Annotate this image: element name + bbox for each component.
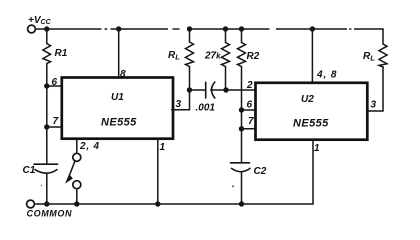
scan speck [41,185,42,186]
terminal COMMON [27,200,35,208]
wire U1 pin 3 to RL junction [172,90,190,110]
wire R2 bottom / U2 pins 2,6,7 column to C2 [241,67,243,163]
terminal +Vcc [28,25,36,33]
wire left column (R1 leads / pins 6,7 / C1) [46,29,48,204]
capacitor .001 curved plate [212,82,215,98]
wire coupling cap line [190,89,256,91]
node Vcc/R1 junction [44,26,49,31]
switch S1 upper contact [73,153,81,161]
capacitor .001 left plate [205,82,207,98]
node U2 4,8 top junction [310,26,315,31]
wire U1 pin 8 [118,29,120,78]
node U2 pin6 junction [239,107,244,112]
resistor RL right [379,29,387,67]
node R2 top junction [239,26,244,31]
capacitor C1 top plate [34,163,58,165]
svg-text:8: 8 [120,69,126,80]
capacitor C1 curved plate [35,170,57,174]
svg-text:R2: R2 [247,51,260,62]
scan speck [232,185,234,187]
svg-text:+VCC: +VCC [28,15,52,26]
capacitor C2 top plate [231,162,250,164]
capacitor C2 curved plate [232,168,251,171]
svg-text:U1: U1 [111,92,124,103]
wire top rail scan gaps [102,28,355,31]
svg-text:1: 1 [314,143,320,154]
svg-text:7: 7 [53,116,59,127]
resistor R2 zigzag [238,43,246,67]
resistor R2 leads [241,29,243,43]
wire U2 pin 3 to RL right [367,67,383,111]
switch S1 blade [69,161,75,177]
node 27k top junction [223,26,228,31]
svg-text:6: 6 [247,100,253,111]
svg-text:RL: RL [168,50,180,62]
svg-text:C2: C2 [254,166,267,177]
svg-text:RL: RL [363,51,375,63]
node switch bottom junction [74,201,79,206]
IC U2 NE555 box [256,83,368,140]
wire U2 pin 6 stub [242,109,256,111]
svg-text:3: 3 [176,99,182,110]
wire U2 pin 7 stub [242,128,256,130]
wire U1 pin 2,4 stub to switch [76,139,78,154]
svg-text:COMMON: COMMON [27,209,73,219]
wire U1 pin 7 stub [47,126,62,128]
svg-text:2: 2 [246,80,253,91]
svg-text:27k: 27k [204,51,221,62]
node pin3/RL junction [187,87,192,92]
IC U1 NE555 box [62,78,173,139]
wire top +Vcc rail [36,28,383,30]
resistor 27k zigzag [222,43,230,67]
wire U1 pin 1 [157,139,159,204]
wire switch lower stub [76,189,78,204]
resistor R1 [43,44,51,64]
wire bottom COMMON rail [35,203,313,205]
wire U1 pin 6 stub [47,85,62,87]
node U1 pin7 junction [44,124,49,129]
switch S1 arrowhead [66,175,72,182]
svg-text:.001: .001 [196,103,216,114]
svg-text:7: 7 [248,116,254,127]
svg-text:1: 1 [160,142,166,153]
node U1 pin6 junction [44,83,49,88]
wire U2 pins 4,8 [311,29,313,83]
node pin8 junction [116,26,121,31]
svg-text:3: 3 [371,100,377,111]
wire C2 lower lead [241,172,243,204]
node U1 pin1 bottom junction [155,201,160,206]
svg-text:R1: R1 [55,48,68,59]
resistor RL left leads [189,29,191,90]
svg-text:2, 4: 2, 4 [79,141,100,152]
svg-text:NE555: NE555 [293,118,329,130]
resistor RL left zigzag [186,42,194,67]
svg-text:U2: U2 [301,94,314,105]
svg-text:6: 6 [52,77,58,88]
svg-text:NE555: NE555 [101,117,137,129]
switch S1 lower contact [73,181,81,189]
node C2 bottom junction [239,201,244,206]
node RL left top junction [187,26,192,31]
node C1 bottom junction [44,201,49,206]
svg-text:4, 8: 4, 8 [316,70,337,81]
svg-text:C1: C1 [23,165,36,176]
resistor 27k leads [225,29,227,90]
node cap/27k junction [223,87,228,92]
node U2 pin7 junction [239,126,244,131]
wire U2 pin 1 [312,140,314,204]
